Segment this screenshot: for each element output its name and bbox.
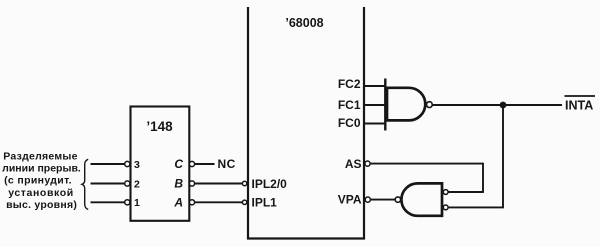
svg-text:FC0: FC0 xyxy=(338,116,361,130)
wire: INTA into gate input xyxy=(448,206,504,208)
output bubble VPA xyxy=(365,197,370,202)
input bubble IPL2/0 xyxy=(242,181,246,185)
svg-text:’148: ’148 xyxy=(146,119,173,134)
wire: NAND output to INTA xyxy=(432,104,562,106)
svg-text:AS: AS xyxy=(345,157,362,171)
input bubble pin 1 xyxy=(125,200,130,205)
svg-text:IPL2/0: IPL2/0 xyxy=(252,177,288,191)
priority encoder U1 '148 body xyxy=(131,107,190,221)
input bubble IPL1 xyxy=(242,200,246,204)
negative-OR gate U4 body (left facing AND shape) xyxy=(401,183,442,215)
output bubble C xyxy=(189,161,194,166)
wire: junction vertical drop xyxy=(502,105,504,207)
brace grouping interrupt lines xyxy=(82,159,88,209)
svg-text:выс. уровня): выс. уровня) xyxy=(6,199,77,211)
U4 input bubble bottom xyxy=(443,205,448,210)
NAND U3 input bar xyxy=(384,79,386,131)
wire: FC1 to NAND xyxy=(365,104,386,106)
wire: AS horizontal xyxy=(370,163,483,165)
svg-text:1: 1 xyxy=(134,197,140,209)
svg-text:FC1: FC1 xyxy=(338,98,361,112)
svg-text:NC: NC xyxy=(218,157,236,171)
NAND U3 output bubble xyxy=(427,102,433,108)
output bubble B xyxy=(189,181,194,186)
U4 input bubble top xyxy=(443,190,448,195)
svg-text:Разделяемые: Разделяемые xyxy=(3,151,77,163)
input bubble pin 3 xyxy=(125,161,130,166)
svg-text:FC2: FC2 xyxy=(338,77,361,91)
svg-text:2: 2 xyxy=(134,178,140,190)
svg-text:B: B xyxy=(174,177,183,191)
svg-text:3: 3 xyxy=(134,159,140,171)
annotation: shared interrupt lines text xyxy=(2,151,81,212)
svg-text:установкой: установкой xyxy=(8,187,74,199)
wire: interrupt request line to pin 3 xyxy=(91,163,125,165)
U4 output bubble xyxy=(395,197,400,202)
NAND U3 body xyxy=(387,88,425,121)
wire: AS into gate input xyxy=(448,191,484,193)
svg-text:(с принудит.: (с принудит. xyxy=(4,175,72,187)
svg-text:’68008: ’68008 xyxy=(285,16,323,30)
svg-text:линии прерыв.: линии прерыв. xyxy=(2,163,81,175)
wire: FC2 to NAND xyxy=(365,85,386,87)
wire: interrupt request line to pin 2 xyxy=(91,183,125,185)
microprocessor U2 '68008 body (open top) xyxy=(248,7,364,239)
wire: B to IPL2/0 xyxy=(195,183,243,185)
wire: C to NC xyxy=(195,163,215,165)
label INTA with overline xyxy=(565,95,596,97)
svg-text:IPL1: IPL1 xyxy=(252,196,278,210)
input bubble pin 2 xyxy=(125,181,130,186)
output bubble A xyxy=(189,200,194,205)
junction dot xyxy=(500,102,507,109)
svg-text:INTA: INTA xyxy=(565,98,593,112)
wire: A to IPL1 xyxy=(195,201,243,203)
svg-text:VPA: VPA xyxy=(338,193,362,207)
svg-text:C: C xyxy=(174,157,183,171)
wire: AS vertical drop xyxy=(482,163,484,192)
wire: VPA to gate output xyxy=(370,199,395,201)
output bubble AS xyxy=(365,161,370,166)
svg-text:A: A xyxy=(173,195,183,209)
wire: FC0 to NAND xyxy=(365,123,386,125)
wire: interrupt request line to pin 1 xyxy=(91,201,125,203)
